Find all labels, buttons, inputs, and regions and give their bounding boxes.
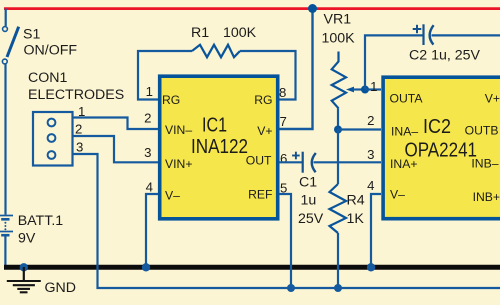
wire IC2 pin4 V- to ground bus bbox=[371, 194, 381, 267]
svg-text:100K: 100K bbox=[223, 25, 257, 41]
svg-text:V–: V– bbox=[390, 188, 405, 202]
switch S1 bbox=[2, 9, 77, 64]
op-amp IC1 INA122 bbox=[160, 76, 278, 219]
svg-text:OUTA: OUTA bbox=[390, 92, 424, 106]
svg-text:OUT: OUT bbox=[246, 154, 272, 168]
wire +9V red rail bbox=[4, 7, 500, 10]
wire INA- node to IC2 pin2 bbox=[338, 128, 381, 130]
svg-text:2: 2 bbox=[367, 113, 374, 128]
svg-text:INA+: INA+ bbox=[390, 157, 417, 171]
svg-text:CON1: CON1 bbox=[28, 70, 68, 86]
wire CON1 pin3 to bottom reference wire bbox=[74, 140, 500, 289]
battery BATT.1 9V bbox=[0, 213, 63, 247]
svg-text:IC1: IC1 bbox=[202, 115, 227, 137]
svg-text:BATT.1: BATT.1 bbox=[18, 213, 64, 229]
connector CON1 ELECTRODES bbox=[28, 70, 124, 166]
svg-text:25V: 25V bbox=[298, 211, 324, 227]
wire left rail to battery bbox=[4, 64, 6, 215]
wiper arrow bbox=[346, 87, 354, 93]
wire CON1 pin1 to IC1 pin2 bbox=[74, 104, 159, 129]
wire IC1 pin5 REF to bottom reference wire bbox=[279, 194, 291, 288]
svg-text:9V: 9V bbox=[18, 231, 36, 247]
wire bbox=[5, 9, 7, 26]
svg-text:V–: V– bbox=[165, 189, 180, 203]
node OUTA junction bbox=[361, 86, 369, 94]
svg-text:V+: V+ bbox=[257, 124, 272, 138]
junction dot R4 on bottom wire bbox=[334, 284, 342, 292]
svg-text:INA122: INA122 bbox=[191, 136, 248, 158]
svg-text:8: 8 bbox=[279, 85, 286, 100]
svg-text:1: 1 bbox=[370, 79, 377, 94]
wire IC1 pin7 V+ to red rail bbox=[279, 9, 313, 130]
svg-text:ON/OFF: ON/OFF bbox=[24, 43, 78, 59]
svg-text:3: 3 bbox=[367, 147, 374, 162]
svg-text:ELECTRODES: ELECTRODES bbox=[28, 87, 124, 103]
svg-text:4: 4 bbox=[146, 180, 153, 195]
capacitor C2 1u, 25V bbox=[409, 24, 500, 63]
resistor R1 100K with wires to IC1 pins 1 and 8 bbox=[138, 25, 296, 100]
svg-text:3: 3 bbox=[144, 145, 151, 160]
svg-text:1: 1 bbox=[146, 84, 153, 99]
svg-text:GND: GND bbox=[45, 280, 77, 296]
svg-text:RG: RG bbox=[162, 93, 180, 107]
svg-text:S1: S1 bbox=[23, 27, 40, 43]
svg-text:RG: RG bbox=[254, 93, 272, 107]
svg-text:1K: 1K bbox=[347, 211, 365, 227]
svg-text:R4: R4 bbox=[347, 193, 365, 209]
junction dot on red rail bbox=[308, 4, 317, 13]
svg-text:7: 7 bbox=[280, 114, 287, 129]
junction dot IC1 V- on bus bbox=[142, 263, 150, 271]
resistor R4 1K bbox=[330, 130, 365, 289]
junction dot REF on bottom wire bbox=[287, 284, 295, 292]
svg-text:VR1: VR1 bbox=[324, 12, 352, 28]
svg-text:2: 2 bbox=[144, 111, 151, 126]
svg-text:4: 4 bbox=[367, 178, 374, 193]
svg-text:INA–: INA– bbox=[391, 125, 418, 139]
wire CON1 pin2 to IC1 pin3 bbox=[74, 122, 159, 163]
capacitor C1 1u 25V bbox=[279, 152, 381, 227]
svg-text:C2 1u, 25V: C2 1u, 25V bbox=[409, 48, 481, 64]
svg-text:INB+: INB+ bbox=[473, 190, 500, 204]
svg-text:C1: C1 bbox=[299, 175, 317, 191]
node INA- junction bbox=[334, 126, 342, 134]
wire OUTA node to IC2 pin1 bbox=[365, 88, 381, 90]
svg-text:REF: REF bbox=[248, 187, 272, 201]
svg-text:V+: V+ bbox=[485, 92, 500, 106]
potentiometer VR1 100K bbox=[322, 12, 366, 130]
svg-text:6: 6 bbox=[280, 151, 287, 166]
svg-text:2: 2 bbox=[75, 122, 82, 137]
wire IC1 pin4 V- to ground bus bbox=[146, 194, 158, 267]
svg-text:IC2: IC2 bbox=[423, 116, 451, 138]
op-amp IC2 OPA2241 bbox=[383, 77, 500, 219]
ground symbol GND bbox=[7, 263, 76, 296]
svg-text:1u: 1u bbox=[301, 193, 317, 209]
svg-text:INB–: INB– bbox=[471, 157, 498, 171]
svg-text:100K: 100K bbox=[322, 31, 356, 47]
wire battery to ground bus bbox=[4, 237, 6, 268]
svg-text:R1: R1 bbox=[191, 25, 209, 41]
junction dot IC2 V- on bus bbox=[367, 263, 375, 271]
svg-text:OUTB: OUTB bbox=[465, 124, 499, 138]
svg-text:3: 3 bbox=[76, 140, 83, 155]
svg-text:VIN+: VIN+ bbox=[165, 157, 192, 171]
wire OUTA node up to C2 bbox=[365, 35, 424, 89]
svg-text:VIN–: VIN– bbox=[165, 123, 192, 137]
ground bus (black) bbox=[4, 265, 500, 270]
